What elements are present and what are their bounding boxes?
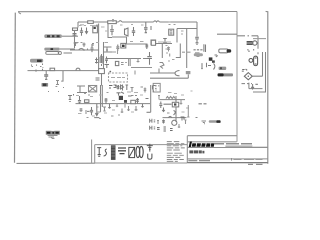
diode D1 dark <box>42 83 49 87</box>
wire corner <box>108 24 112 38</box>
bus end corner <box>196 22 198 36</box>
gray box part <box>186 71 191 74</box>
H pair glyphs <box>150 119 156 130</box>
legend glyph: double ellipse <box>136 146 143 157</box>
border frame right inner vertical <box>236 12 238 142</box>
wire bus GND rail <box>28 70 101 72</box>
title block bottom rule <box>187 162 267 164</box>
tick above bus <box>112 20 114 22</box>
wire drop <box>61 71 63 82</box>
title block rule under logo row <box>187 147 267 149</box>
C-shape part <box>175 71 180 76</box>
hump on gnd rail <box>76 68 80 70</box>
arrow <box>162 108 165 112</box>
specks below bus <box>79 25 144 26</box>
parts left of R6 <box>95 58 98 64</box>
wire v2 <box>103 42 105 69</box>
border frame right outer vertical <box>266 11 268 163</box>
tick <box>150 26 152 30</box>
arrow down <box>251 84 258 89</box>
footer text middle-right <box>231 158 263 161</box>
label dashes <box>158 41 171 43</box>
legend glyph: diagonal box <box>129 147 135 157</box>
cap pair C13 <box>145 44 148 49</box>
arrow part <box>85 28 88 34</box>
wire h lower <box>127 43 173 46</box>
lower bus wire <box>76 103 151 105</box>
junction dot <box>175 99 177 101</box>
switch label SW1 <box>30 59 43 63</box>
curve part <box>174 111 176 116</box>
capacitor C3 <box>80 28 83 36</box>
part cluster mid <box>105 98 111 109</box>
resistor R2 on bus <box>88 21 94 24</box>
model name text <box>189 150 204 153</box>
dark specks at rail end <box>181 117 184 120</box>
arrow down part <box>94 104 99 118</box>
dashes mid <box>121 59 130 67</box>
power column: dash-dot feed <box>238 36 259 55</box>
extra specks cluster D bottom <box>84 92 125 119</box>
resistor R6 vertical zigzag <box>100 54 103 66</box>
parts right of T1 <box>131 87 147 96</box>
L hook right <box>104 47 112 50</box>
legend bottom line <box>95 162 188 164</box>
bracket and box left <box>182 51 191 53</box>
legend box frame <box>92 140 188 164</box>
dashed IC box U1 <box>109 73 128 82</box>
dark bar D4 <box>218 73 233 76</box>
small marks before IC label <box>196 118 207 124</box>
border frame top <box>18 11 237 13</box>
resistor R8 <box>131 100 136 103</box>
legend glyph: pot symbol <box>97 148 101 157</box>
title block rule above footer <box>187 158 267 160</box>
small parts near D1 <box>48 81 64 92</box>
cap C9 <box>159 102 171 109</box>
cluster A parts: capacitor C2 <box>73 31 77 48</box>
resistor squiggle <box>194 44 204 52</box>
specks cluster B <box>166 31 184 61</box>
L wire <box>177 29 198 43</box>
legend-area wires above legend <box>68 94 74 102</box>
cap C10 <box>195 36 199 44</box>
wires from diamond <box>249 52 266 92</box>
wire to power column <box>217 33 237 35</box>
extra parts row y44-48 left <box>76 43 85 52</box>
transistor Q1 <box>93 26 98 33</box>
junction box <box>99 69 105 74</box>
electrolytic C14 <box>147 52 151 65</box>
open box region <box>162 44 180 59</box>
legend glyph: hatched resistor <box>111 145 116 160</box>
legend glyph: triple dash <box>118 148 126 154</box>
cap C6 <box>144 22 147 33</box>
right header line <box>253 146 268 148</box>
wire h mid <box>112 37 127 44</box>
title block outline <box>187 136 237 163</box>
switch diamond SW2 <box>242 69 253 80</box>
label dashes cluster D <box>76 92 143 116</box>
top supply bus wire <box>78 21 197 23</box>
gray box above dark bar <box>219 67 227 70</box>
bits around dark dots <box>201 45 218 69</box>
resistor R9 zigzag <box>166 97 175 99</box>
battery BT1 <box>247 41 257 45</box>
hump on bus 2 <box>154 21 160 22</box>
dark transistor Q3 <box>117 92 128 103</box>
wire h y73 <box>150 72 175 74</box>
resistor R3 on bus <box>108 21 117 24</box>
hump on rail <box>169 116 172 117</box>
capacitor C1 <box>44 71 48 80</box>
parts below rail <box>162 117 183 124</box>
wire corner at bus start <box>77 22 79 28</box>
wire v x188 <box>187 105 189 117</box>
dash-dot under diamond <box>242 83 253 85</box>
wire stubs top cluster D <box>77 86 87 93</box>
lower rail cluster E <box>163 117 187 119</box>
double vertical wires <box>101 85 103 112</box>
short line above battery <box>253 38 266 40</box>
capacitor C12 vertical <box>112 45 118 54</box>
wire h y78 <box>150 77 188 79</box>
cap C15 <box>91 44 94 52</box>
FL-303 board label dark <box>46 131 59 138</box>
bracket left <box>163 39 167 44</box>
label dashes cluster E <box>168 91 193 112</box>
input jack label J1 <box>44 48 60 51</box>
cap C5 <box>132 27 135 36</box>
wire into right area <box>186 28 188 68</box>
wire from VR1 <box>62 35 78 37</box>
capacitor C11 <box>116 45 119 51</box>
wire from J2 <box>64 52 73 54</box>
extra parts cluster E <box>157 96 187 129</box>
resistor R5 <box>151 40 156 45</box>
stub marks <box>153 86 157 92</box>
legend glyph: s-curve <box>104 149 107 156</box>
part inside open box <box>167 47 170 57</box>
title block rule under header <box>187 141 236 143</box>
DC jack J3 <box>249 56 258 65</box>
box small <box>151 40 155 45</box>
resistor R1 on rail <box>50 68 55 70</box>
node dots under SW1 <box>32 66 42 68</box>
legend glyph: ground <box>147 144 153 152</box>
logo row small text <box>214 143 252 147</box>
bracket curve <box>214 64 215 70</box>
bottom tails cluster D <box>80 106 138 114</box>
cap label dark D3 <box>219 49 231 53</box>
mid rail wire <box>70 50 152 59</box>
upper-right block: box part <box>169 29 174 35</box>
box with dots lower-left <box>153 83 160 92</box>
vertical spine cluster E <box>175 96 177 122</box>
IC label U2 <box>209 120 218 123</box>
dark dot 2 <box>212 60 215 62</box>
electrolytic C4 <box>110 25 114 35</box>
small label dashes <box>80 25 108 31</box>
legend text block lower <box>167 153 184 161</box>
cluster E top rail <box>160 99 186 101</box>
legend text block upper <box>167 142 185 150</box>
gray pot label <box>194 53 203 56</box>
wire seg y52 <box>103 50 112 53</box>
footer small text left <box>188 160 210 161</box>
below-box tiny text <box>248 164 263 165</box>
border frame corner tick <box>19 12 21 14</box>
bits above box <box>169 22 176 25</box>
box part with dark dot <box>121 43 126 48</box>
pot label VR1 <box>44 34 62 38</box>
label dashes row y42 <box>96 42 144 43</box>
hump on rail y50 <box>79 48 88 50</box>
dark marks bottom cluster E <box>157 127 173 131</box>
dark cap blob <box>209 57 213 60</box>
wire stub y112 <box>96 107 101 112</box>
small box part <box>91 86 96 91</box>
parts (117-128, 84-94) <box>117 85 129 91</box>
resistor R7 <box>85 100 89 103</box>
transistor Q4 circle <box>172 120 177 125</box>
bottom-right wires of midleft <box>131 59 152 75</box>
wire v2b below box <box>101 74 103 86</box>
wire v x188 upper <box>187 74 189 78</box>
small parts right of Q3 <box>128 96 149 108</box>
hump on bus <box>119 21 123 22</box>
cap C8 <box>87 107 93 115</box>
resistor R4 <box>73 28 78 30</box>
tick marks on rail <box>32 64 44 72</box>
box with dot <box>172 102 178 107</box>
cap right of R6 <box>105 57 110 69</box>
dash pair right of cluster E <box>199 103 207 105</box>
zigzag wire left <box>159 63 164 74</box>
dark speck right of box <box>110 71 112 73</box>
dark bits upper cluster D <box>109 86 118 89</box>
dashes inside U1 <box>111 77 125 79</box>
Ibanez logo <box>189 142 215 148</box>
parts right of rail <box>96 78 124 89</box>
small box part mid <box>115 61 118 65</box>
legend glyph: horseshoe <box>148 154 152 160</box>
wire v <box>98 24 100 69</box>
label marks <box>195 53 203 57</box>
speaker-like part pair <box>125 28 129 36</box>
wire from J1 <box>60 48 75 50</box>
battery node dots <box>247 50 254 51</box>
IC label dark end <box>216 120 220 123</box>
border frame left <box>14 13 17 163</box>
cap C7 <box>78 96 81 104</box>
border frame bottom <box>17 162 96 164</box>
bracket wire left of cluster E <box>147 85 151 112</box>
transformer T1 crossed box <box>89 86 97 92</box>
T parts above rail <box>74 42 95 47</box>
output jack label J2 <box>46 51 62 54</box>
